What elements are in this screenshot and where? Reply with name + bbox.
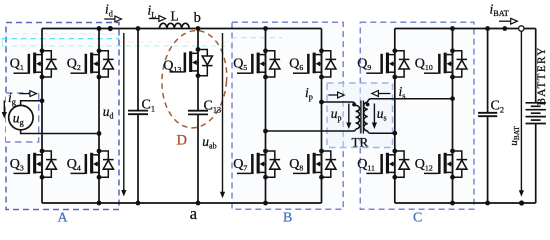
wire block B left leg <box>265 29 267 204</box>
voltage arrow up <box>346 104 351 130</box>
transistor Q10 <box>424 48 467 79</box>
battery connector open circle <box>519 26 524 31</box>
pink current-path dashed line 2 <box>119 41 230 43</box>
red dashed ellipse D around Q13/C13 <box>159 28 230 130</box>
node dot C2 bottom <box>485 201 490 206</box>
node dot primary tap on B right leg <box>319 100 324 105</box>
cyan current-path vertical stub <box>1 39 3 46</box>
node a dot <box>196 201 201 206</box>
node dot primary return on B left leg <box>263 129 268 134</box>
svg-text:L: L <box>171 9 179 24</box>
current arrow iL <box>149 16 166 22</box>
node dot bottom rail at Q4 leg <box>97 201 102 206</box>
wire top rail left (A to B) <box>42 28 322 30</box>
node dot top rail aux <box>108 26 113 31</box>
node dot top rail at Q2 leg <box>97 26 102 31</box>
transformer secondary polarity dot <box>366 103 370 107</box>
transformer core <box>361 101 364 134</box>
cyan current-path dashed line 3 <box>232 37 283 39</box>
ac source ug circle <box>9 105 33 129</box>
transistor Q6 <box>293 48 336 79</box>
svg-text:BATTERY: BATTERY <box>536 46 548 105</box>
current arrow is <box>372 91 391 97</box>
transistor Q3 <box>14 149 57 180</box>
transistor Q8 <box>293 149 336 180</box>
transistor Q11 <box>366 149 409 180</box>
wire block C left leg <box>394 29 396 204</box>
node dot battery negative tap <box>519 200 524 205</box>
node dot top rail at Q10 leg <box>450 26 455 31</box>
wire secondary side lower (secondary winding to C left leg tap) <box>368 131 395 133</box>
node dot ug bottom junction <box>97 131 102 136</box>
wire C2 branch <box>487 29 489 204</box>
wire ug bottom lead <box>21 129 99 134</box>
pink current-path dashed line 1 <box>4 33 118 35</box>
block C dashed box <box>360 22 474 209</box>
cyan current-path dashed line 1 <box>2 38 119 40</box>
transistor Q7 <box>237 149 280 180</box>
current arrow ip <box>328 92 344 98</box>
transformer secondary winding <box>364 102 368 131</box>
transformer primary polarity dot <box>352 103 356 107</box>
wire ug top lead <box>21 101 42 107</box>
wire node b branch down to Q13 and C13 <box>197 29 199 204</box>
wire C1 branch <box>137 29 139 204</box>
node dot C1 top <box>136 26 141 31</box>
voltage arrow uBAT <box>519 32 524 197</box>
svg-text:B: B <box>283 211 292 226</box>
wire block A left leg <box>41 29 43 204</box>
node dot battery positive tap <box>502 26 507 31</box>
block B dashed box <box>232 22 343 209</box>
capacitor C2 <box>478 113 497 116</box>
wire top rail right (C to battery) <box>395 28 536 30</box>
capacitor C1 <box>128 111 148 115</box>
wire bottom rail left <box>42 202 322 204</box>
battery cells <box>526 103 546 124</box>
current arrow id <box>104 16 121 22</box>
wire secondary side upper (secondary winding to C right leg tap) <box>368 99 453 102</box>
transistor Q2 <box>71 48 114 79</box>
wire block C right leg <box>452 29 454 204</box>
voltage arrow uab <box>220 33 225 198</box>
wire primary side lower (primary winding to B left leg) <box>266 129 356 131</box>
wire bottom rail right <box>395 202 536 204</box>
grid-source cutout box (around ug) <box>6 93 39 142</box>
node dot secondary bottom on C left leg <box>392 131 397 136</box>
current arrow ig <box>19 91 36 97</box>
transistor Q5 <box>237 48 280 79</box>
current arrow iBAT <box>499 18 517 24</box>
node dot bottom rail at Q7 leg <box>263 201 268 206</box>
cyan current-path dashed line 2 <box>2 45 232 47</box>
node dot bottom rail at Q12 leg <box>450 201 455 206</box>
node dot ug top junction <box>40 98 45 103</box>
capacitor C13 <box>188 111 208 115</box>
block A dashed box <box>6 23 119 210</box>
node dot C1 bottom <box>136 201 141 206</box>
wire block A right leg <box>98 29 100 204</box>
transistor Q4 <box>71 149 114 180</box>
node b dot <box>196 26 201 31</box>
node dot secondary top on C right leg <box>450 96 455 101</box>
grid voltage polarity arrow <box>2 100 7 118</box>
transistor Q13 <box>170 47 213 78</box>
transistor Q12 <box>424 149 467 180</box>
transistor Q9 <box>366 48 409 79</box>
svg-text:b: b <box>194 10 201 26</box>
svg-text:TR: TR <box>352 135 369 150</box>
svg-text:D: D <box>177 133 187 149</box>
node dot top rail at Q5 leg <box>263 26 268 31</box>
transformer primary winding <box>356 105 360 129</box>
transformer TR dashed box <box>327 83 393 148</box>
inductor L <box>160 23 190 28</box>
svg-text:A: A <box>58 211 69 226</box>
svg-text:a: a <box>190 204 198 223</box>
node dot C2 top <box>485 26 490 31</box>
wire primary side upper (B right leg tap to primary winding) <box>322 102 356 105</box>
voltage arrow us <box>372 104 377 130</box>
wire battery branch <box>535 29 537 204</box>
svg-text:C: C <box>413 211 422 226</box>
transistor Q1 <box>14 48 57 79</box>
voltage arrow ud <box>121 33 126 197</box>
wire block B right leg <box>321 29 323 204</box>
